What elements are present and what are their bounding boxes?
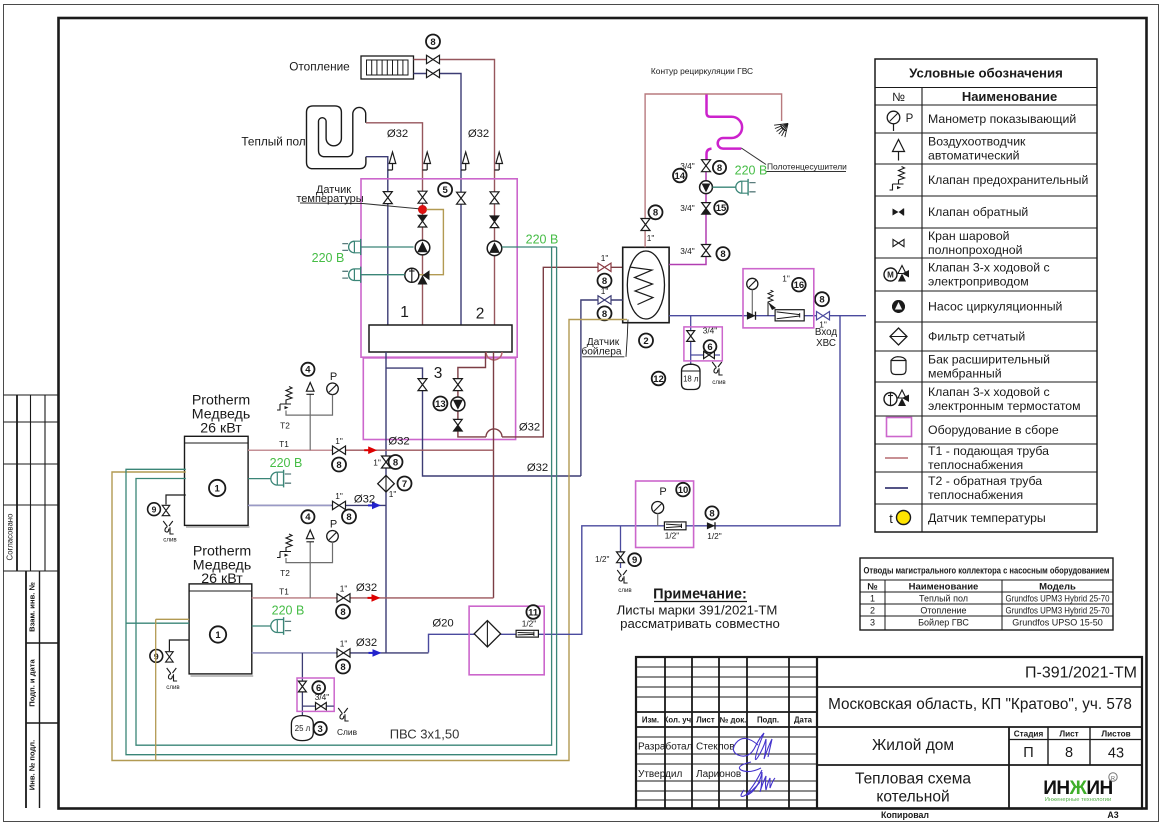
svg-text:8: 8 xyxy=(340,607,345,618)
floor heating serpentine loop xyxy=(307,106,366,169)
radiator Отопление xyxy=(361,56,414,79)
valve towel bottom xyxy=(702,245,711,257)
wire boiler1 T1 pale stub xyxy=(248,449,331,451)
svg-text:1/2": 1/2" xyxy=(707,531,722,541)
svg-text:Наименование: Наименование xyxy=(909,582,979,593)
svg-text:1: 1 xyxy=(400,304,409,321)
svg-text:Ø20: Ø20 xyxy=(432,618,453,630)
pump table Отводы магистрального коллектора xyxy=(860,558,1113,630)
svg-text:Ø32: Ø32 xyxy=(356,637,377,649)
sensor red dot xyxy=(419,206,427,214)
svg-text:Ø32: Ø32 xyxy=(356,582,377,594)
svg-text:Взам. инв. №: Взам. инв. № xyxy=(28,582,37,632)
svg-text:П: П xyxy=(1023,745,1033,761)
svg-text:4: 4 xyxy=(305,512,311,523)
legend icon бак расширительный xyxy=(891,361,906,375)
drain line 18l xyxy=(691,354,720,356)
tank T1 valve xyxy=(598,263,611,271)
branch 18l xyxy=(690,316,692,331)
svg-text:слив: слив xyxy=(166,684,180,691)
svg-text:8: 8 xyxy=(709,508,714,519)
label 1 boiler upper xyxy=(209,480,225,496)
label 4 sg2 xyxy=(301,510,314,523)
svg-text:Ø32: Ø32 xyxy=(527,462,548,474)
make-up unit box xyxy=(636,481,694,548)
svg-text:Тепловая схема: Тепловая схема xyxy=(855,771,971,788)
valve v2 xyxy=(418,191,427,203)
plug 220V upper manifold xyxy=(342,239,360,255)
svg-text:15: 15 xyxy=(716,203,727,214)
svg-text:Фильтр сетчатый: Фильтр сетчатый xyxy=(928,330,1025,344)
svg-text:теплоснабжения: теплоснабжения xyxy=(928,458,1023,472)
svg-text:Стадия: Стадия xyxy=(1014,730,1044,739)
svg-text:мембранный: мембранный xyxy=(928,367,1002,381)
sidebar lower grid xyxy=(25,571,27,808)
pump v4 xyxy=(487,241,502,256)
svg-text:Разработал: Разработал xyxy=(638,741,693,753)
svg-text:рассматривать совместно: рассматривать совместно xyxy=(620,616,780,631)
label 2 tank xyxy=(639,334,653,348)
label 8 XVS xyxy=(815,292,829,306)
svg-text:Подп.: Подп. xyxy=(757,716,779,725)
svg-text:Слив: Слив xyxy=(337,727,358,737)
svg-text:Оборудование в сборе: Оборудование в сборе xyxy=(928,423,1059,437)
sensor wire tan xyxy=(420,210,444,275)
label 15 towel check xyxy=(714,201,728,215)
svg-text:R: R xyxy=(1111,776,1115,782)
svg-text:№: № xyxy=(892,90,905,104)
svg-text:Листов: Листов xyxy=(1101,730,1130,739)
svg-text:9: 9 xyxy=(632,555,637,566)
gauge make-up xyxy=(652,502,664,514)
svg-text:220 В: 220 В xyxy=(272,604,305,618)
svg-text:Р: Р xyxy=(330,371,337,383)
svg-text:3: 3 xyxy=(434,365,443,382)
towel riser xyxy=(669,160,706,265)
signature scribbles xyxy=(733,733,772,760)
svg-text:8: 8 xyxy=(653,208,658,219)
legend icon манометр xyxy=(887,111,900,124)
svg-text:1": 1" xyxy=(340,639,348,649)
wire section3 supply xyxy=(458,352,486,437)
svg-text:Бак расширительный: Бак расширительный xyxy=(928,353,1050,367)
pump towel xyxy=(700,181,713,194)
wire boiler2 T1 pale stub xyxy=(252,597,336,599)
svg-text:26 кВт: 26 кВт xyxy=(200,421,242,437)
legend icon оборудование в сборе xyxy=(887,418,912,437)
tank sensor wire khaki xyxy=(112,320,627,761)
svg-text:Наименование: Наименование xyxy=(962,89,1057,104)
wire supply riser xyxy=(493,352,495,598)
svg-text:3/4": 3/4" xyxy=(680,246,695,256)
wire teal loop inner xyxy=(136,247,552,745)
label 7 filter xyxy=(398,477,412,491)
check valve v4 xyxy=(490,216,499,228)
label 8 b1T1 xyxy=(332,458,346,472)
svg-text:8: 8 xyxy=(720,249,725,260)
pump v2 xyxy=(415,240,430,255)
svg-text:1/2": 1/2" xyxy=(665,531,680,541)
svg-text:Теплый пол: Теплый пол xyxy=(241,135,305,149)
svg-text:теплоснабжения: теплоснабжения xyxy=(928,488,1023,502)
svg-text:16: 16 xyxy=(794,280,805,291)
safety group boiler2 xyxy=(309,542,311,598)
wire radiator T1 supply xyxy=(414,60,495,326)
svg-text:1": 1" xyxy=(782,274,790,284)
legend icon клапан 3-х ходовой с термостатом xyxy=(884,393,897,406)
legend icon клапан обратный xyxy=(893,209,899,216)
box 18l valve xyxy=(684,327,722,361)
valve boiler1 T2 xyxy=(333,501,346,509)
make-up drain xyxy=(620,526,622,552)
svg-text:Т1: Т1 xyxy=(279,439,289,449)
tank cold inlet / XVS line xyxy=(669,315,866,317)
tank 18l xyxy=(682,364,701,389)
leader towel label xyxy=(741,148,766,165)
svg-text:8: 8 xyxy=(336,460,341,471)
svg-text:слив: слив xyxy=(163,537,177,544)
valve v3 xyxy=(457,192,466,204)
svg-text:2: 2 xyxy=(643,336,648,347)
svg-text:котельной: котельной xyxy=(876,789,949,806)
svg-text:Ø32: Ø32 xyxy=(468,128,489,140)
svg-text:Теплый пол: Теплый пол xyxy=(919,594,968,604)
safety valve sg2 xyxy=(277,534,292,558)
reducer make-up xyxy=(664,522,686,530)
svg-text:Инженерные технологии: Инженерные технологии xyxy=(1045,797,1111,803)
boiler 1 upper Protherm xyxy=(185,436,249,525)
equipment box manifold xyxy=(361,179,517,357)
safety valve sg1 xyxy=(277,387,292,411)
svg-text:автоматический: автоматический xyxy=(928,149,1020,163)
svg-text:8: 8 xyxy=(1065,745,1073,761)
drain boiler2 xyxy=(169,640,189,651)
svg-text:электроприводом: электроприводом xyxy=(928,275,1029,289)
legend icon клапан предохранительный xyxy=(890,167,905,191)
valve section3 blue xyxy=(418,379,427,391)
tank 25l xyxy=(291,716,313,741)
label 3 25l tank xyxy=(314,722,327,735)
svg-text:14: 14 xyxy=(675,171,686,182)
svg-text:1": 1" xyxy=(335,491,343,501)
legend icon клапан 3-х ходовой с электроприводом xyxy=(884,268,897,281)
svg-text:6: 6 xyxy=(707,342,712,353)
svg-text:Отводы магистрального коллекто: Отводы магистрального коллектора с насос… xyxy=(864,566,1110,577)
air vent on floor supply xyxy=(423,152,431,170)
label 8 b2T2 xyxy=(336,660,350,674)
drain symbol 25l xyxy=(338,708,348,721)
svg-text:3: 3 xyxy=(318,724,323,735)
wire teal loop mid xyxy=(126,247,557,755)
svg-text:8: 8 xyxy=(717,163,722,174)
arrow boiler1 T2 xyxy=(368,504,376,506)
svg-text:8: 8 xyxy=(602,309,607,320)
svg-text:4: 4 xyxy=(305,365,311,376)
valve boiler1 T1 xyxy=(333,446,346,454)
svg-text:Вход: Вход xyxy=(815,327,837,338)
pump section3 xyxy=(451,397,465,411)
svg-text:Отопление: Отопление xyxy=(289,60,350,74)
svg-text:Т2 - обратная труба: Т2 - обратная труба xyxy=(928,474,1042,488)
drain boiler1 xyxy=(166,495,186,505)
boiler 2 lower Protherm xyxy=(189,584,252,674)
svg-text:температуры: температуры xyxy=(296,193,363,205)
valve v4 xyxy=(490,192,499,204)
svg-text:8: 8 xyxy=(430,37,435,48)
label 8 tankT1 xyxy=(598,274,612,288)
wire floor return xyxy=(366,157,388,325)
svg-text:Grundfos UPM3 Hybrid 25-70: Grundfos UPM3 Hybrid 25-70 xyxy=(1006,606,1110,616)
tank coil xyxy=(630,267,654,305)
label 13 pump GVS xyxy=(433,397,447,411)
svg-text:2: 2 xyxy=(476,306,485,323)
label 9 drain b2 xyxy=(150,650,163,663)
wire boiler1 T1 xyxy=(248,449,493,451)
svg-text:Ø32: Ø32 xyxy=(519,422,540,434)
svg-text:18 л: 18 л xyxy=(683,375,699,384)
svg-text:1": 1" xyxy=(373,458,381,468)
svg-text:13: 13 xyxy=(435,399,446,410)
XVS unit box xyxy=(743,269,814,328)
svg-text:Grundfos UPSO 15-50: Grundfos UPSO 15-50 xyxy=(1012,618,1103,628)
sensor leader line xyxy=(300,203,419,209)
label 9 makeup drain xyxy=(628,553,641,566)
label 6 18l valve xyxy=(704,340,717,353)
svg-text:Изм.: Изм. xyxy=(642,716,659,725)
svg-text:Лист: Лист xyxy=(1059,730,1078,739)
check towel xyxy=(702,203,711,215)
legend icon фильтр сетчатый xyxy=(890,328,907,345)
filter big xyxy=(474,621,500,647)
svg-text:Р: Р xyxy=(659,486,666,498)
svg-text:11: 11 xyxy=(528,607,539,618)
svg-text:полнопроходной: полнопроходной xyxy=(928,243,1023,257)
wire radiator T2 return xyxy=(414,74,462,326)
3-way valve v2 xyxy=(405,268,419,282)
svg-text:220 В: 220 В xyxy=(735,164,768,178)
svg-text:Клапан предохранительный: Клапан предохранительный xyxy=(928,173,1088,187)
svg-text:Ø32: Ø32 xyxy=(387,128,408,140)
svg-text:Ø32: Ø32 xyxy=(354,494,375,506)
valve XVS xyxy=(817,312,830,320)
valve 25l xyxy=(298,681,306,692)
valve boiler2 T2 xyxy=(337,649,350,657)
label 8 towel bottom xyxy=(716,247,729,260)
plug 220V boiler2 xyxy=(252,625,271,627)
svg-text:Московская область, КП "Кратов: Московская область, КП "Кратово", уч. 57… xyxy=(828,696,1132,713)
reducer XVS xyxy=(775,310,804,321)
label 8 rose valve xyxy=(649,205,663,219)
gauge XVS xyxy=(747,278,758,289)
label 12 18l tank xyxy=(652,372,666,386)
wire boiler1 T2 pale stub xyxy=(248,504,331,506)
label 9 drain b1 xyxy=(148,503,161,516)
check valve make-up xyxy=(707,522,715,529)
svg-text:1": 1" xyxy=(335,436,343,446)
svg-text:Кран шаровой: Кран шаровой xyxy=(928,229,1010,243)
svg-text:Насос циркуляционный: Насос циркуляционный xyxy=(928,300,1063,314)
air vent on radiator supply xyxy=(495,152,503,170)
svg-text:Дата: Дата xyxy=(794,716,813,725)
svg-text:бойлера: бойлера xyxy=(581,346,621,358)
svg-text:слив: слив xyxy=(712,379,726,386)
svg-text:Модель: Модель xyxy=(1039,582,1076,593)
wire section3 blue tap xyxy=(386,368,581,476)
svg-text:220 В: 220 В xyxy=(312,251,345,265)
box 25l valve xyxy=(297,678,334,711)
svg-text:Утвердил: Утвердил xyxy=(638,769,682,780)
label 8 tankT2 xyxy=(598,306,612,320)
svg-text:1": 1" xyxy=(601,286,609,296)
svg-text:Примечание:: Примечание: xyxy=(653,587,747,603)
valve towel top xyxy=(702,160,711,172)
reducer filter station xyxy=(516,630,538,637)
svg-text:7: 7 xyxy=(402,479,407,490)
svg-text:43: 43 xyxy=(1108,746,1124,762)
svg-text:Воздухоотводчик: Воздухоотводчик xyxy=(928,135,1026,149)
arrow boiler2 T2 xyxy=(369,652,377,654)
valve header xyxy=(382,456,391,468)
label 8 towel top xyxy=(713,161,726,174)
svg-text:5: 5 xyxy=(442,185,448,196)
svg-text:1": 1" xyxy=(340,584,348,594)
svg-text:Р: Р xyxy=(906,113,914,125)
wire tan boiler2 xyxy=(156,619,189,760)
svg-text:Клапан обратный: Клапан обратный xyxy=(928,205,1028,219)
arrow boiler2 T1 xyxy=(368,597,376,599)
svg-text:8: 8 xyxy=(393,457,398,468)
label 5 manifold xyxy=(438,183,452,197)
svg-text:электронным термостатом: электронным термостатом xyxy=(928,399,1081,413)
label 8 b2T1 xyxy=(336,605,350,619)
plug towel xyxy=(712,186,735,188)
svg-text:Т2: Т2 xyxy=(280,568,290,578)
wire 220V right to pump v4 xyxy=(502,246,557,248)
svg-text:1/2": 1/2" xyxy=(595,554,610,564)
wire return header xyxy=(385,352,387,653)
svg-text:Т1: Т1 xyxy=(279,587,289,597)
check valve v2 xyxy=(418,215,427,227)
svg-text:Ø32: Ø32 xyxy=(388,436,409,448)
svg-text:А3: А3 xyxy=(1107,810,1118,820)
svg-text:1": 1" xyxy=(601,253,609,263)
label 8 makeup check xyxy=(705,506,718,519)
label 6 25l valve xyxy=(312,681,325,694)
pipe hop arc xyxy=(486,429,502,437)
wire floor supply xyxy=(366,123,423,325)
svg-text:Клапан 3-х ходовой с: Клапан 3-х ходовой с xyxy=(928,261,1050,275)
gauge sg2 xyxy=(327,531,339,543)
svg-text:Копировал: Копировал xyxy=(881,810,929,820)
tank top outlet xyxy=(645,94,782,247)
valve radiator supply xyxy=(427,55,440,63)
label 4 sg1 xyxy=(301,363,314,376)
svg-text:1: 1 xyxy=(215,483,221,494)
valve rose recirculation xyxy=(641,219,650,231)
legend icon кран шаровой xyxy=(893,239,904,246)
svg-text:Бойлер ГВС: Бойлер ГВС xyxy=(918,618,969,628)
svg-text:1: 1 xyxy=(870,594,875,604)
svg-text:2: 2 xyxy=(870,606,875,616)
svg-text:Датчик температуры: Датчик температуры xyxy=(928,511,1046,525)
svg-text:8: 8 xyxy=(346,512,351,523)
wire boiler2 T2 xyxy=(252,652,429,654)
gauge sg1 xyxy=(327,383,339,395)
arrow boiler1 T1 xyxy=(364,449,372,451)
check valve section3 xyxy=(454,419,463,431)
svg-text:1: 1 xyxy=(215,630,221,641)
title block right part xyxy=(817,686,1142,688)
valve boiler2 T1 xyxy=(337,594,350,602)
wire boiler2 T1 xyxy=(252,597,494,599)
label 8 header valve xyxy=(389,455,403,469)
svg-text:Лист: Лист xyxy=(696,716,715,725)
svg-text:10: 10 xyxy=(678,485,689,496)
safety valve XVS xyxy=(768,290,773,316)
svg-text:1/2": 1/2" xyxy=(522,619,537,629)
svg-text:Манометр показывающий: Манометр показывающий xyxy=(928,112,1076,126)
plug 220V boiler1 xyxy=(248,478,271,480)
svg-text:Отопление: Отопление xyxy=(920,606,966,616)
svg-text:Кол. уч.: Кол. уч. xyxy=(664,716,694,725)
drain line 25l xyxy=(302,705,333,707)
towel serpentine xyxy=(707,95,743,149)
svg-text:слив: слив xyxy=(618,587,632,594)
filter station box xyxy=(469,606,544,675)
collector xyxy=(369,325,512,352)
label 16 XVS unit xyxy=(792,278,806,292)
label 11 filter station xyxy=(526,605,540,619)
svg-text:3/4": 3/4" xyxy=(315,692,330,702)
legend table Условные обозначения xyxy=(875,59,1097,532)
svg-text:Grundfos UPM3 Hybrid 25-70: Grundfos UPM3 Hybrid 25-70 xyxy=(1006,594,1110,604)
svg-text:1": 1" xyxy=(647,233,655,243)
wire boiler2 T2 pale stub xyxy=(252,652,336,654)
svg-text:Т1 - подающая труба: Т1 - подающая труба xyxy=(928,444,1049,458)
valve radiator return xyxy=(427,69,440,77)
svg-text:8: 8 xyxy=(340,662,345,673)
air vent on floor return xyxy=(388,152,396,170)
legend icon воздухоотводчик xyxy=(893,140,905,152)
svg-text:Подп. и дата: Подп. и дата xyxy=(28,659,37,707)
svg-text:Т2: Т2 xyxy=(280,421,290,431)
air vent sg1 xyxy=(309,246,311,248)
label 14 towel pump xyxy=(673,169,687,183)
label 1 boiler lower xyxy=(210,626,226,642)
svg-text:Условные обозначения: Условные обозначения xyxy=(909,66,1063,81)
air vent on radiator return xyxy=(461,152,469,170)
svg-text:Полотенцесушители: Полотенцесушители xyxy=(767,162,847,172)
wire boiler1 T2 xyxy=(248,504,386,506)
svg-text:220 В: 220 В xyxy=(270,456,303,470)
svg-text:9: 9 xyxy=(152,505,157,515)
svg-text:Клапан 3-х ходовой с: Клапан 3-х ходовой с xyxy=(928,385,1050,399)
svg-text:26 кВт: 26 кВт xyxy=(201,571,243,587)
svg-text:М: М xyxy=(887,271,894,280)
legend icon Т1 line xyxy=(885,457,908,459)
collector supply arc xyxy=(486,352,502,360)
valve v1 xyxy=(383,192,392,204)
tank T2 out xyxy=(581,300,623,476)
valve 18l xyxy=(687,331,695,342)
svg-text:Жилой дом: Жилой дом xyxy=(872,737,954,754)
svg-text:3/4": 3/4" xyxy=(703,326,718,336)
wire plug to pump v2 xyxy=(361,246,414,248)
svg-text:Стеклов: Стеклов xyxy=(696,742,735,753)
plug 220V lower manifold xyxy=(342,267,360,283)
equipment box section 3 xyxy=(363,358,515,440)
svg-text:П-391/2021-ТМ: П-391/2021-ТМ xyxy=(1025,665,1137,682)
